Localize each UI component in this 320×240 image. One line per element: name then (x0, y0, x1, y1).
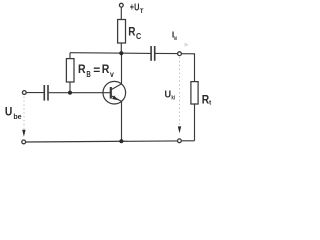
svg-text:R: R (78, 62, 86, 76)
svg-text:C: C (136, 31, 142, 41)
svg-text:=: = (93, 63, 100, 77)
svg-text:U: U (5, 104, 12, 118)
svg-text:+U: +U (130, 2, 140, 14)
svg-text:B: B (86, 69, 90, 79)
svg-text:ki: ki (174, 36, 177, 42)
svg-text:ki: ki (171, 96, 175, 102)
svg-text:v: v (110, 69, 114, 79)
svg-text:R: R (128, 25, 135, 39)
svg-text:T: T (140, 8, 144, 15)
svg-text:be: be (13, 113, 21, 121)
svg-text:R: R (102, 62, 110, 76)
svg-text:U: U (165, 90, 172, 101)
